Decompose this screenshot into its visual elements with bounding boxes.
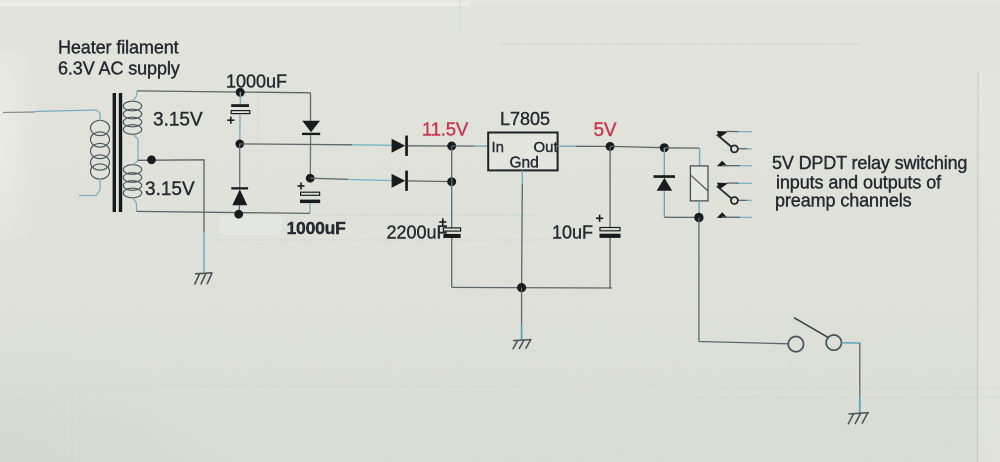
wire secondary upper bottom lead: [133, 135, 138, 162]
wire mid rail node A to D3: [240, 143, 352, 146]
wire primary top lead: [3, 111, 35, 114]
wire top rail corner down to D2: [310, 93, 312, 121]
node relay bottom: [694, 213, 703, 222]
relay contact set 1 common pole: [731, 145, 738, 152]
wire 5V node down to C4: [609, 146, 611, 227]
wire secondary lower top lead: [133, 161, 138, 165]
relay contact set 1 throw a: [717, 131, 728, 138]
diode D5 flyback: [654, 175, 676, 178]
relay contact set 2 common pole: [731, 197, 738, 204]
diode D2: [302, 121, 320, 133]
wire center tap to ground drop: [138, 160, 204, 232]
diode D4: [392, 174, 406, 188]
relay contact set 2 arm: [717, 186, 732, 199]
wire coil K1 to bottom node: [698, 201, 700, 213]
diode D3: [392, 139, 406, 153]
wire lower rail node B to D4: [310, 178, 348, 179]
wire node to relay coil corner: [664, 147, 699, 149]
wire D1 to bottom rail node: [238, 205, 241, 214]
wire top rail: [137, 91, 311, 93]
wire primary bottom lead: [79, 178, 100, 196]
transformer T1 primary winding: [91, 120, 110, 179]
wire C4 to ground rail: [609, 238, 611, 288]
wire secondary upper top lead to top rail: [133, 91, 137, 101]
wire ground rail to ground symbol: [521, 288, 523, 324]
wire node 11.5V to U1 input: [452, 145, 475, 147]
wire node to diode D5: [663, 148, 665, 175]
wire node 11.5V to node C: [451, 146, 453, 182]
ground regulator: [513, 340, 532, 350]
capacitor C3 2200uF: [439, 218, 446, 225]
wire switch to ground: [841, 342, 860, 344]
capacitor C2 1000uF lower: [298, 183, 305, 190]
capacitor C1 1000uF upper: [231, 104, 249, 107]
relay coil K1: [690, 166, 708, 201]
wire top rail to C1: [239, 92, 241, 105]
wire ground rail: [452, 286, 612, 289]
wire D2 to node B: [309, 135, 311, 178]
switch SW1 contact b: [826, 335, 841, 350]
capacitor C4 10uF: [596, 215, 603, 222]
transformer T1 secondary winding lower 3.15V: [123, 165, 141, 198]
node D5: [660, 143, 669, 152]
relay contact set 1 arm: [717, 135, 732, 148]
regulator U1 L7805: [488, 133, 557, 171]
switch SW1 lever: [794, 318, 829, 338]
node ground rail: [517, 283, 526, 292]
relay contact set 1 throw b: [717, 161, 728, 167]
wire corner down to coil K1: [699, 148, 701, 166]
diode D1: [231, 187, 248, 189]
node A mid rail: [235, 140, 244, 149]
node B lower mid rail: [306, 174, 315, 183]
ground switch: [848, 413, 869, 425]
transformer T1 secondary winding upper 3.15V: [123, 101, 141, 134]
wire U1 gnd down: [521, 170, 523, 184]
wire D5 to relay bottom: [663, 191, 665, 218]
wire C1 to node A: [239, 114, 241, 144]
wire node A to diode D1: [239, 144, 241, 188]
wire 5V rail to relay: [610, 146, 664, 147]
switch SW1 contact a: [788, 337, 803, 352]
node 11.5V: [447, 142, 456, 151]
relay contact set 2 throw b: [717, 212, 728, 218]
ground transformer center tap: [195, 273, 213, 285]
wire D3 to node 11.5V: [408, 145, 452, 147]
wire D4 to node C: [408, 180, 452, 183]
node center tap: [147, 155, 156, 164]
whiteout patch (scan artifact): [219, 216, 282, 236]
wire relay bottom node down to switch: [698, 218, 700, 342]
relay contact set 2 throw a: [717, 183, 728, 190]
wire U1 out to 5V node: [557, 145, 576, 147]
transformer T1 core: [113, 93, 116, 212]
wire bottom rail: [137, 211, 311, 213]
wire node C to C3: [451, 182, 453, 228]
node top rail / C1: [236, 88, 245, 97]
node 5V: [606, 142, 615, 151]
node bottom rail / D1: [234, 210, 243, 219]
wire secondary lower bottom lead: [133, 198, 137, 211]
node C: [447, 177, 456, 186]
wire C2 to bottom rail: [309, 203, 311, 213]
wire C3 to ground rail: [451, 238, 453, 287]
